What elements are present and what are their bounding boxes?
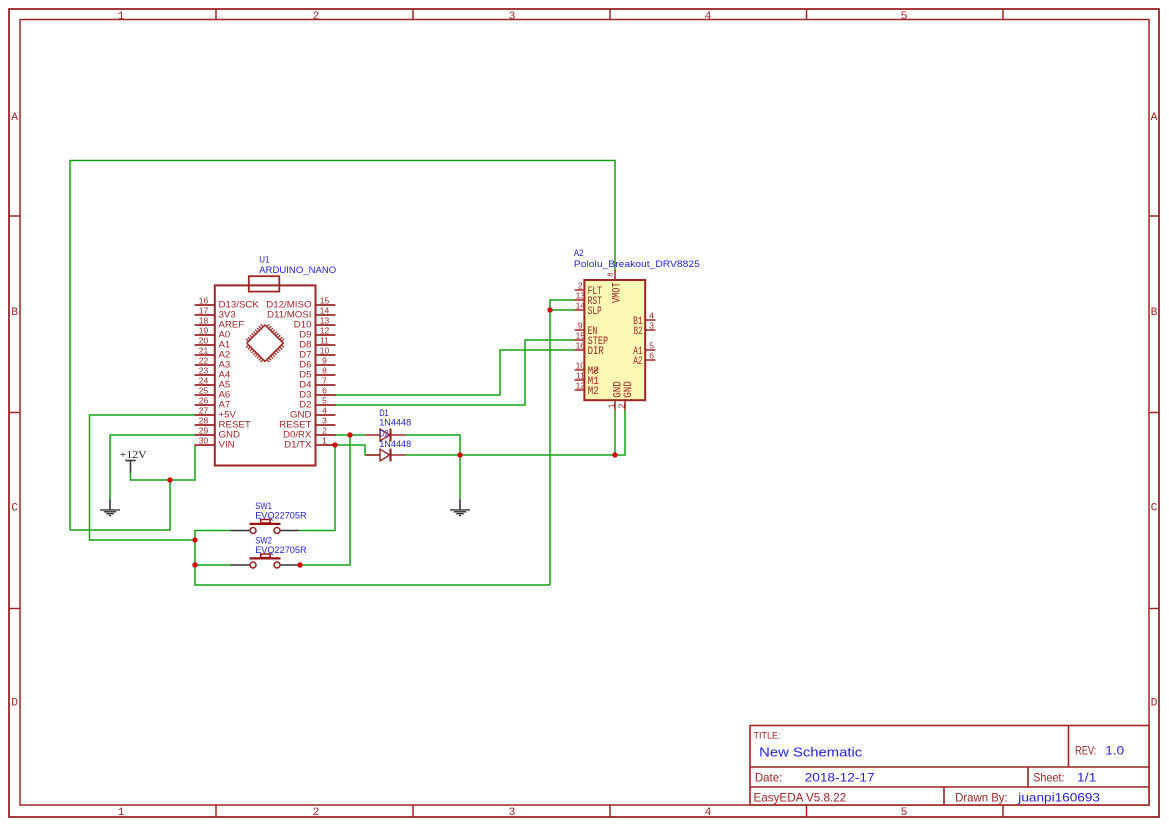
svg-text:D11/MOSI: D11/MOSI [267,310,312,320]
wire RX net: pin D0/RX to diode D1 anode [335,434,366,436]
svg-text:5: 5 [649,341,654,351]
title block REV label [1075,745,1096,758]
svg-text:4: 4 [649,311,654,321]
svg-text:A7: A7 [219,400,231,410]
svg-text:A1: A1 [219,340,231,350]
svg-text:B2: B2 [634,326,643,338]
U1 pin 18 AREF [195,316,245,330]
svg-text:Pololu_Breakout_DRV8825: Pololu_Breakout_DRV8825 [574,259,700,269]
svg-text:3: 3 [509,11,516,23]
svg-text:+12V: +12V [120,449,147,461]
wire +12V net: riser from +12V junction down to left rail [70,480,170,530]
svg-text:D5: D5 [299,370,312,380]
U1 reference label [259,254,269,264]
ground symbol near pin 29 [100,500,120,516]
svg-text:16: 16 [199,296,209,306]
U1 pin 22 A3 [195,356,231,370]
wire GND net: diode D2 cathode to DRV8825 GND pins [406,410,626,455]
power +12V symbol [120,449,147,473]
U1 pin 23 A4 [195,366,231,380]
svg-text:A0: A0 [219,330,231,340]
A2 pin 14 SLP [575,301,602,318]
svg-text:9: 9 [322,356,327,366]
svg-text:12: 12 [576,381,586,391]
D2 reference label [379,429,389,439]
svg-text:D1: D1 [379,408,389,418]
diode D1 1N4448 [366,429,406,442]
svg-text:D0/RX: D0/RX [283,430,312,440]
SW2 reference label [255,536,272,546]
svg-text:1: 1 [118,11,125,23]
junction RX [347,432,352,437]
svg-text:15: 15 [576,331,586,341]
U1 pin 17 3V3 [195,306,236,320]
svg-text:DIR: DIR [588,346,604,358]
U1 pin 3 RESET [279,416,335,430]
U1 pin 21 A2 [195,346,231,360]
svg-text:6: 6 [649,351,654,361]
svg-text:D7: D7 [299,350,312,360]
svg-text:3: 3 [509,807,516,819]
svg-text:A: A [1151,112,1158,124]
svg-text:16: 16 [576,341,586,351]
wire RX net: vertical to SW2 right pin [300,435,350,565]
svg-text:TITLE:: TITLE: [754,731,781,742]
svg-text:VMOT: VMOT [612,282,624,303]
svg-text:D: D [1151,698,1158,710]
title block author value [1017,791,1100,805]
A2 pin 4 B1 [633,311,655,328]
svg-text:2: 2 [322,426,327,436]
svg-text:7: 7 [322,376,327,386]
svg-text:GND: GND [623,381,635,398]
wire DIR net: D3 pin to DIR pin [334,350,576,395]
U1 pin 7 D4 [299,376,335,390]
A2 pin 2 FLT [575,281,603,298]
svg-text:4: 4 [705,11,712,23]
U1 pin 9 D6 [299,356,335,370]
U1 pin 12 D9 [299,326,335,340]
junction TX [332,442,337,447]
title block schematic name [759,745,862,760]
IC U1 ARDUINO_NANO body [215,276,316,465]
U1 pin 13 D10 [294,316,336,330]
frame row labels right [1151,112,1158,710]
switch SW1 EVQ22705R [231,520,299,534]
svg-text:1: 1 [118,807,125,819]
switch SW2 EVQ22705R [231,554,299,568]
svg-text:Sheet:: Sheet: [1033,772,1064,785]
wire +5V net: switch column vertical [195,531,550,586]
frame column labels bottom [118,807,908,819]
svg-text:M2: M2 [588,386,599,398]
svg-text:RESET: RESET [279,420,312,430]
svg-text:8: 8 [322,366,327,376]
svg-text:11: 11 [576,371,585,381]
U1 value label ARDUINO_NANO [259,265,336,275]
svg-text:D4: D4 [299,380,312,390]
wire TX net: vertical to SW1 right pin [299,445,336,531]
svg-text:20: 20 [199,336,209,346]
svg-text:+5V: +5V [219,410,237,420]
svg-text:D6: D6 [299,360,312,370]
junction +12V [167,477,172,482]
U1 pin 30 VIN [195,436,235,450]
D1 value label 1N4448 [379,418,411,428]
svg-text:13: 13 [320,316,330,326]
svg-text:A3: A3 [219,360,231,370]
svg-text:12: 12 [320,326,330,336]
svg-text:D10: D10 [294,320,312,330]
svg-text:A6: A6 [219,390,231,400]
svg-text:22: 22 [199,356,209,366]
svg-text:A2: A2 [574,248,584,258]
svg-text:30: 30 [199,436,209,446]
svg-text:24: 24 [199,376,209,386]
svg-text:1/1: 1/1 [1077,771,1097,785]
U1 pin 24 A5 [195,376,231,390]
svg-text:1: 1 [607,403,617,408]
title block Date label [755,772,782,785]
D2 value label 1N4448 [379,439,411,449]
svg-text:1N4448: 1N4448 [379,418,411,428]
svg-text:D8: D8 [299,340,312,350]
svg-text:C: C [11,502,18,514]
svg-text:5: 5 [901,807,908,819]
svg-text:A: A [11,112,18,124]
U1 pin 19 A0 [195,326,231,340]
svg-text:23: 23 [199,366,209,376]
junction +5V [192,537,197,542]
U1 pin 4 GND [290,406,336,420]
wire GND net: diode D1 cathode to ground [406,435,461,500]
A2 pin 8 VMOT [606,270,624,303]
svg-text:1: 1 [322,436,327,446]
svg-text:9: 9 [578,321,583,331]
wire +12V net: top rail from left riser to VMOT [70,161,615,531]
wire STEP net: D2 pin to STEP pin [334,340,576,405]
svg-text:D12/MISO: D12/MISO [266,300,311,310]
wire +12V net: VIN pin to +12V symbol [131,445,196,480]
svg-text:D9: D9 [299,330,312,340]
A2 reference label [574,248,584,258]
svg-text:VIN: VIN [219,440,235,450]
svg-text:19: 19 [199,326,209,336]
module A2 Pololu_Breakout_DRV8825 body [584,280,645,400]
svg-text:juanpi160693: juanpi160693 [1017,791,1100,805]
svg-text:D2: D2 [299,400,312,410]
U1 pin 28 RESET [195,416,252,430]
U1 pin 1 D1/TX [284,436,335,450]
svg-text:New Schematic: New Schematic [759,745,862,760]
svg-text:21: 21 [199,346,209,356]
svg-text:29: 29 [199,426,209,436]
svg-text:D1/TX: D1/TX [284,440,312,450]
ground symbol near diode D1 [450,500,470,516]
svg-text:3V3: 3V3 [219,310,236,320]
wire GND net: DRV8825 GND pin 1 drop [614,410,616,455]
U1 pin 16 D13/SCK [195,296,259,310]
svg-text:2: 2 [313,11,320,23]
U1 pin 6 D3 [299,386,335,400]
U1 pin 8 D5 [299,366,335,380]
svg-text:REV:: REV: [1075,745,1096,758]
wire TX net: pin D1/TX to diode D2 anode [327,445,381,455]
svg-text:D3: D3 [299,390,312,400]
title block Sheet label [1033,772,1064,785]
svg-text:B: B [1151,307,1158,319]
U1 pin 20 A1 [195,336,231,350]
U1 pin 11 D8 [299,336,335,350]
frame row labels left [11,112,18,710]
svg-text:C: C [1151,502,1158,514]
wire +5V net: pin 27 to junction at switch column [90,415,196,540]
svg-text:3: 3 [649,321,654,331]
svg-text:10: 10 [576,361,586,371]
IC U1 chip glyph [246,324,284,362]
junction SLP/RST [547,307,552,312]
A2 pin 10 M0 [575,361,600,378]
U1 pin 2 D0/RX [283,426,336,440]
svg-text:18: 18 [199,316,209,326]
svg-text:Drawn By:: Drawn By: [955,792,1008,805]
svg-text:A5: A5 [219,380,231,390]
svg-text:D13/SCK: D13/SCK [219,300,260,310]
svg-text:A4: A4 [219,370,231,380]
wire SLP/RST net: SLP pin stub [550,309,576,311]
A2 value label Pololu_Breakout_DRV8825 [574,259,700,269]
svg-text:8: 8 [606,273,615,277]
svg-text:3: 3 [322,416,327,426]
svg-text:11: 11 [320,336,329,346]
svg-text:1.0: 1.0 [1105,744,1124,758]
junction RX at SW2 [297,562,302,567]
svg-text:B: B [11,307,18,319]
title block [750,726,1149,806]
A2 pin 13 RST [575,291,603,308]
diode D2 1N4448 [366,449,406,462]
svg-text:4: 4 [705,807,712,819]
frame column labels top [118,11,908,23]
title block Drawn By label [955,792,1008,805]
svg-text:4: 4 [322,406,327,416]
U1 pin 10 D7 [299,346,335,360]
U1 pin 25 A6 [195,386,231,400]
wire +5V net: stub to SW2 left pin [195,564,231,566]
svg-text:15: 15 [320,296,330,306]
junction GND at D1 [457,452,462,457]
A2 pin 11 M1 [575,371,600,388]
svg-text:D2: D2 [379,429,389,439]
svg-text:SLP: SLP [588,306,602,318]
A2 pin 6 A2 [633,351,655,368]
A2 pin 9 EN [575,321,598,338]
svg-text:5: 5 [901,11,908,23]
svg-text:EVQ22705R: EVQ22705R [255,510,307,520]
title block EasyEDA version [754,792,847,805]
A2 pin 3 B2 [634,321,656,338]
svg-text:D: D [11,698,18,710]
U1 pin 14 D11/MOSI [267,306,336,320]
svg-text:ARDUINO_NANO: ARDUINO_NANO [259,265,336,275]
svg-text:2: 2 [313,807,320,819]
U1 pin 26 A7 [195,396,231,410]
svg-text:13: 13 [576,291,586,301]
svg-text:26: 26 [199,396,209,406]
svg-text:RESET: RESET [219,420,252,430]
junction GND at DRV [612,452,617,457]
A2 pin 15 STEP [575,331,609,348]
junction +5V at SW2 [192,562,197,567]
A2 pin 16 DIR [575,341,605,358]
svg-text:U1: U1 [259,254,269,264]
svg-text:17: 17 [199,306,209,316]
svg-text:25: 25 [199,386,209,396]
title block date value [805,771,875,785]
title block sheet value [1077,771,1097,785]
svg-text:14: 14 [576,301,586,311]
svg-text:2: 2 [617,403,627,408]
U1 pin 15 D12/MISO [266,296,335,310]
svg-text:2018-12-17: 2018-12-17 [805,771,875,785]
D1 reference label [379,408,389,418]
svg-text:6: 6 [322,386,327,396]
A2 pin 5 A1 [633,341,655,358]
U1 pin 5 D2 [299,396,335,410]
U1 pin 29 GND [195,426,240,440]
wire SLP/RST net: RST pin to vertical [550,300,576,585]
svg-text:AREF: AREF [219,320,245,330]
U1 pin 27 +5V [195,406,237,420]
svg-text:EVQ22705R: EVQ22705R [255,545,307,555]
svg-text:A2: A2 [633,356,642,368]
svg-text:2: 2 [578,281,583,291]
svg-text:1N4448: 1N4448 [379,439,411,449]
A2 pin 2 GND [617,381,635,410]
svg-text:GND: GND [290,410,312,420]
title block TITLE label [754,731,781,742]
svg-text:EasyEDA V5.8.22: EasyEDA V5.8.22 [754,792,847,805]
title block revision value [1105,744,1124,758]
SW1 value label EVQ22705R [255,510,307,520]
svg-text:GND: GND [219,430,241,440]
svg-text:Date:: Date: [755,772,782,785]
svg-text:27: 27 [199,406,209,416]
svg-text:5: 5 [322,396,327,406]
A2 pin 1 GND [607,381,625,410]
SW1 reference label [255,501,272,511]
svg-text:14: 14 [320,306,330,316]
A2 pin 12 M2 [575,381,599,398]
svg-text:28: 28 [199,416,209,426]
svg-text:10: 10 [320,346,330,356]
SW2 value label EVQ22705R [255,545,307,555]
wire GND net: pin 29 to ground symbol [110,435,195,500]
svg-text:A2: A2 [219,350,231,360]
